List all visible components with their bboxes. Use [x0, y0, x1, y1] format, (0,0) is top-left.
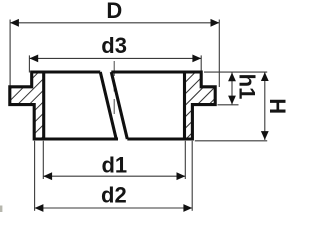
- hatching right wall: [179, 35, 222, 158]
- arrow H top: [261, 72, 269, 81]
- arrow d1 left: [43, 172, 52, 180]
- arrow d3 right: [192, 55, 201, 63]
- dimension line h1: [231, 73, 233, 105]
- dimension line H: [264, 72, 266, 140]
- slot slant right: [111, 72, 127, 139]
- svg-text:d2: d2: [101, 183, 127, 208]
- hatching left wall: [4, 38, 50, 176]
- centerline of slot: [113, 61, 115, 114]
- arrow d1 right: [177, 172, 186, 180]
- arrow D left: [10, 19, 19, 27]
- edge artifact: [0, 206, 2, 213]
- inner hole edge right: [183, 72, 186, 139]
- extension line d2 right: [191, 141, 193, 211]
- svg-text:h1: h1: [235, 74, 260, 100]
- extension line d2 left: [34, 141, 36, 211]
- body outline right wall: [111, 72, 215, 139]
- extension line d3 left: [28, 55, 30, 72]
- dimension line d2: [35, 207, 193, 209]
- label h1: [235, 74, 260, 100]
- svg-text:d3: d3: [101, 33, 127, 58]
- svg-text:D: D: [106, 0, 122, 23]
- extension line d1 right: [184, 141, 186, 179]
- arrow h1 bottom: [228, 96, 236, 105]
- inner hole edge left: [42, 72, 45, 139]
- arrow d2 right: [183, 204, 192, 212]
- dimension line d3: [29, 57, 201, 59]
- extension line D left: [9, 20, 11, 87]
- svg-text:H: H: [265, 98, 290, 114]
- svg-text:d1: d1: [101, 152, 127, 177]
- dimension line D: [10, 22, 219, 24]
- slot slant left: [100, 72, 116, 139]
- arrow H bottom: [261, 131, 269, 140]
- extension line bottom (for H): [195, 140, 267, 142]
- label H: [265, 98, 290, 114]
- extension line d1 left: [42, 141, 44, 179]
- extension line D right: [218, 20, 220, 88]
- arrow d2 left: [35, 204, 44, 212]
- dimension line d1: [43, 175, 185, 177]
- arrow D right: [211, 19, 220, 27]
- extension line top (for H and h1): [204, 71, 267, 73]
- arrow h1 top: [228, 73, 236, 82]
- extension line d3 right: [200, 55, 202, 72]
- arrow d3 left: [29, 55, 38, 63]
- extension line flange bottom (for h1): [218, 104, 239, 106]
- body outline left wall: [10, 72, 118, 139]
